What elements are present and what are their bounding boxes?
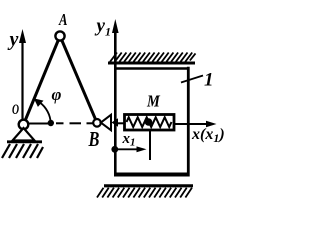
solid line O to angle dot — [29, 123, 51, 125]
bottom wall hatching — [97, 188, 192, 198]
svg-text:1: 1 — [105, 25, 111, 39]
svg-text:O: O — [12, 101, 19, 118]
frame top edge — [114, 67, 190, 69]
y1 axis / frame left edge — [112, 19, 119, 176]
ground hatching at O — [2, 144, 43, 158]
spring box (mass M) — [125, 115, 175, 131]
frame right edge — [187, 67, 190, 177]
svg-text:y: y — [8, 29, 19, 51]
svg-text:B: B — [88, 128, 100, 151]
svg-text:1: 1 — [204, 70, 214, 91]
svg-text:y: y — [95, 16, 106, 37]
x1 arrowhead — [137, 146, 147, 152]
svg-text:M: M — [146, 92, 161, 110]
x axis arrowhead — [206, 121, 217, 127]
ground triangle at O — [13, 128, 35, 141]
slider contact arrowhead — [112, 118, 119, 126]
top wall base line — [108, 62, 195, 65]
x1 dimension line — [116, 148, 140, 150]
phi arc — [37, 101, 51, 121]
leader line to label 1 — [181, 76, 203, 83]
slider wedge at B — [101, 115, 111, 130]
mass center reference line — [149, 131, 151, 160]
spring center dot — [145, 118, 153, 126]
svg-text:φ: φ — [52, 85, 62, 104]
pivot O circle — [19, 120, 29, 130]
svg-text:x(x1): x(x1) — [191, 126, 225, 145]
x1 origin dot — [111, 146, 118, 153]
svg-text:A: A — [58, 11, 67, 29]
top wall hatching — [110, 53, 196, 62]
connecting rod AB — [60, 36, 97, 123]
pin A — [55, 31, 64, 40]
x axis out of frame — [175, 123, 210, 125]
y axis — [19, 29, 26, 120]
dashed line to B — [56, 122, 93, 124]
bottom wall base line — [104, 184, 193, 187]
angle reference dot — [48, 120, 54, 126]
ground base line at O — [7, 140, 42, 143]
phi arc arrowhead — [34, 98, 44, 107]
pin B — [93, 119, 101, 127]
crank OA — [24, 36, 61, 125]
spring zigzag — [127, 117, 172, 127]
stub from frame edge to spring box — [116, 122, 125, 124]
frame bottom edge — [114, 173, 190, 177]
